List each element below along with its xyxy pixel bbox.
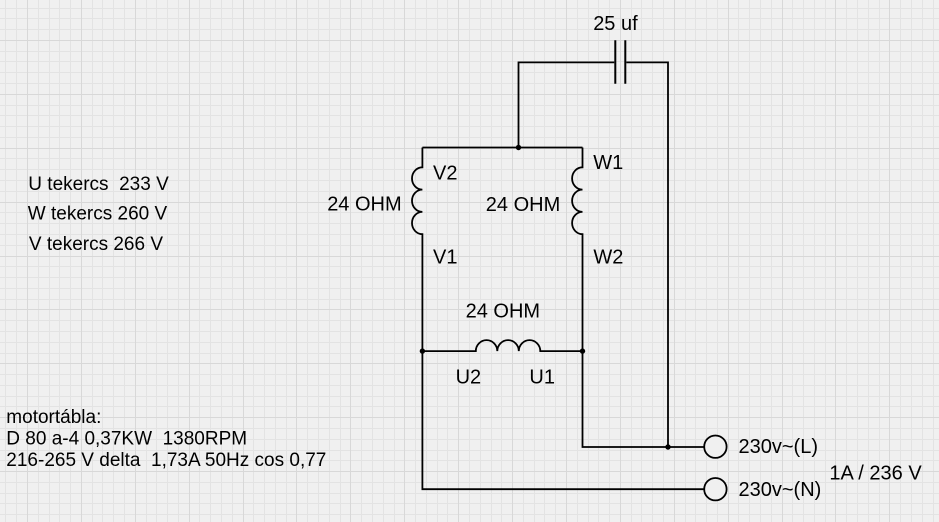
wire top bus between V2 and W1 xyxy=(422,147,582,149)
svg-text:motortábla:: motortábla: xyxy=(6,407,101,428)
svg-text:1A / 236 V: 1A / 236 V xyxy=(829,462,922,484)
junction dot on L wire xyxy=(665,444,670,449)
junction dot top node xyxy=(516,145,521,150)
svg-text:216-265 V delta 1,73A 50Hz co: 216-265 V delta 1,73A 50Hz cos 0,77 xyxy=(6,450,326,471)
svg-text:V tekercs 266 V: V tekercs 266 V xyxy=(29,234,163,255)
svg-text:V2: V2 xyxy=(433,162,457,184)
inductor W winding (W1-W2) with wire down to L xyxy=(572,148,704,448)
svg-text:230v~(N): 230v~(N) xyxy=(739,479,822,501)
wire from top node up to capacitor left plate xyxy=(519,62,615,147)
junction dot right of bottom bus xyxy=(580,348,585,353)
svg-text:W tekercs 260 V: W tekercs 260 V xyxy=(28,204,168,225)
svg-text:24 OHM: 24 OHM xyxy=(486,194,560,216)
capacitor C1 plates xyxy=(615,40,625,84)
svg-text:W2: W2 xyxy=(593,247,623,269)
svg-text:230v~(L): 230v~(L) xyxy=(739,436,819,458)
terminal circle L xyxy=(704,436,726,458)
svg-text:U tekercs 233 V: U tekercs 233 V xyxy=(28,174,169,195)
terminal circle N xyxy=(704,478,726,500)
svg-text:24 OHM: 24 OHM xyxy=(466,300,540,322)
junction dot left of bottom bus xyxy=(420,348,425,353)
svg-text:U1: U1 xyxy=(529,366,555,388)
svg-text:W1: W1 xyxy=(593,152,623,174)
bottom bus with inductor U winding (U2-U1) xyxy=(422,340,582,351)
svg-text:25 uf: 25 uf xyxy=(593,13,638,35)
inductor V winding (V2-V1) with wire down to N xyxy=(412,148,704,490)
svg-text:D 80 a-4 0,37KW 1380RPM: D 80 a-4 0,37KW 1380RPM xyxy=(6,429,247,450)
svg-text:V1: V1 xyxy=(433,246,457,268)
wire from capacitor right plate down to L wire xyxy=(626,62,668,447)
svg-text:U2: U2 xyxy=(456,366,482,388)
svg-text:24 OHM: 24 OHM xyxy=(327,194,401,216)
